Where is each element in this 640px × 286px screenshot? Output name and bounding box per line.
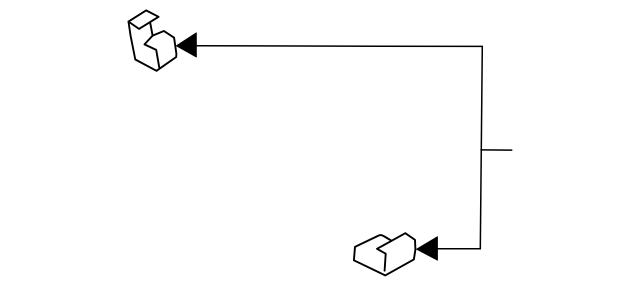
upper clip part: hang edge from top face — [150, 23, 152, 35]
leader line: top horizontal wire — [196, 45, 482, 48]
upper clip part: top face — [129, 10, 159, 29]
upper clip part: notch fold lines — [145, 36, 160, 68]
lower clip part: outer outline with lip — [354, 233, 416, 275]
arrowhead (lower, pointing left at lower clip) — [417, 237, 438, 260]
upper clip part: outer body outline — [129, 22, 177, 71]
leader line: right vertical wire — [480, 46, 482, 248]
lower clip part: notch fold lines — [377, 241, 392, 271]
arrowhead (upper, pointing left at upper clip) — [177, 33, 197, 57]
leader line: middle tick wire — [481, 149, 512, 151]
leader line: bottom horizontal wire — [437, 248, 480, 250]
